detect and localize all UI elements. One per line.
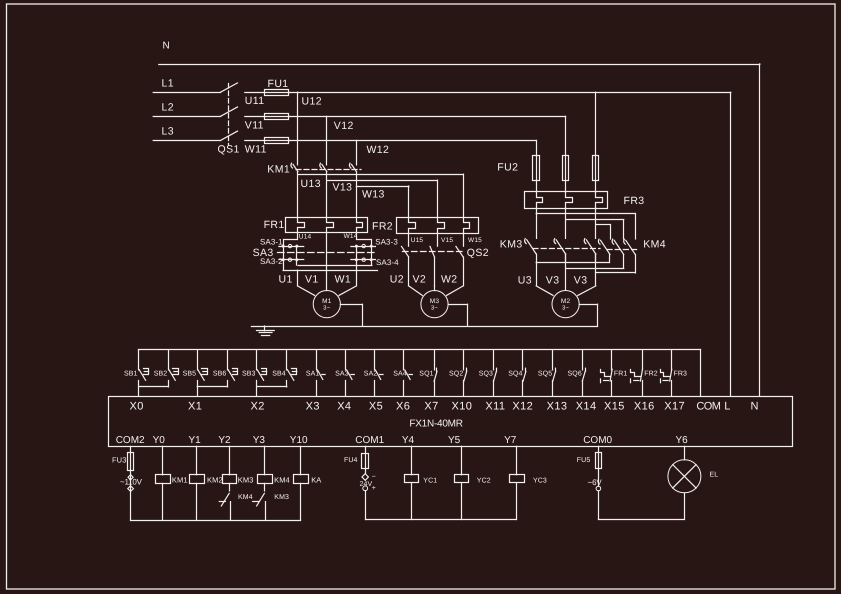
relay coils KM1 KM2 — [156, 446, 223, 520]
svg-text:SA3-4: SA3-4 — [376, 258, 399, 267]
motor M2 with leads U3 V3 W3 — [536, 263, 597, 327]
svg-text:FU3: FU3 — [112, 455, 126, 464]
svg-text:COM: COM — [696, 400, 720, 412]
svg-text:SB6: SB6 — [213, 371, 227, 378]
input contact SA1 — [306, 350, 325, 397]
svg-text:COM2: COM2 — [116, 435, 145, 446]
svg-text:V15: V15 — [441, 237, 453, 244]
svg-text:Y6: Y6 — [676, 435, 689, 446]
wires U13/V13/W13 down to FR1 — [298, 172, 357, 218]
svg-text:FU2: FU2 — [497, 161, 518, 173]
svg-text:Y2: Y2 — [218, 435, 231, 446]
svg-text:YC1: YC1 — [423, 477, 437, 484]
svg-text:FU4: FU4 — [344, 457, 358, 464]
svg-text:X11: X11 — [485, 400, 505, 412]
wires U3/V3/W3 merge of KM3-KM4 outputs — [518, 254, 636, 287]
svg-text:YC2: YC2 — [477, 477, 491, 484]
svg-text:3~: 3~ — [323, 305, 331, 312]
svg-text:FX1N-40MR: FX1N-40MR — [409, 418, 462, 429]
wire input common bus — [139, 349, 701, 351]
svg-text:Y7: Y7 — [504, 435, 517, 446]
svg-text:X6: X6 — [396, 400, 410, 412]
svg-text:W13: W13 — [362, 188, 385, 200]
switch QS1 pole 2 blade — [221, 107, 238, 116]
svg-text:SQ5: SQ5 — [538, 371, 552, 378]
svg-text:YC3: YC3 — [533, 477, 547, 484]
svg-text:SA3-1: SA3-1 — [260, 237, 283, 246]
wire U11 — [245, 93, 290, 108]
svg-text:M2: M2 — [561, 298, 571, 305]
svg-text:X1: X1 — [188, 400, 202, 412]
svg-text:KM4: KM4 — [238, 494, 253, 501]
svg-text:SQ4: SQ4 — [508, 371, 522, 378]
svg-text:3~: 3~ — [431, 305, 439, 312]
svg-text:SA3-2: SA3-2 — [260, 257, 283, 266]
svg-text:X0: X0 — [130, 400, 144, 412]
svg-text:W1: W1 — [335, 273, 352, 285]
thermal relay FR3 heaters — [525, 192, 645, 209]
svg-text:X10: X10 — [452, 400, 473, 412]
svg-text:V13: V13 — [333, 182, 353, 194]
input contact SQ1 — [419, 350, 437, 397]
PLC FX1N-40MR — [109, 397, 793, 447]
svg-text:U1: U1 — [279, 273, 293, 285]
fuse FU5 + 6V source — [577, 446, 603, 519]
svg-text:KM3: KM3 — [274, 494, 289, 501]
svg-text:FU1: FU1 — [268, 78, 289, 90]
switch QS1 pole 3 blade — [221, 131, 238, 140]
svg-text:X2: X2 — [251, 400, 265, 412]
input contact FR3 — [661, 350, 688, 397]
input contact SQ6 — [568, 350, 586, 397]
input contact SB3 — [242, 350, 287, 397]
svg-text:KM3: KM3 — [500, 239, 523, 251]
switch QS1 pole 1 blade — [221, 83, 238, 92]
svg-text:SA3: SA3 — [335, 371, 349, 378]
svg-text:FR1: FR1 — [614, 371, 628, 378]
input contact FR1 — [601, 350, 628, 397]
input contact SB1 — [124, 350, 168, 397]
wire 24V return bus — [366, 519, 517, 521]
wire bus to PLC COM — [700, 350, 702, 397]
svg-text:SB1: SB1 — [124, 371, 138, 378]
wire 110V return bus — [131, 520, 301, 522]
input contact SB5 — [183, 350, 228, 397]
fuse FU1 element 2 — [265, 114, 289, 120]
input contact FR2 — [631, 350, 658, 397]
svg-text:U11: U11 — [245, 95, 265, 107]
wire L1 incoming — [153, 77, 220, 92]
svg-text:FR2: FR2 — [644, 371, 658, 378]
svg-text:Y1: Y1 — [189, 435, 202, 446]
svg-text:KM4: KM4 — [643, 239, 666, 251]
input contact SQ2 — [449, 350, 467, 397]
net N (neutral bus) — [159, 41, 760, 397]
svg-text:X15: X15 — [604, 400, 625, 412]
svg-text:SA1: SA1 — [306, 371, 320, 378]
svg-text:QS2: QS2 — [467, 247, 489, 259]
wire V12 — [289, 117, 565, 132]
svg-text:Y5: Y5 — [448, 435, 461, 446]
svg-text:SB5: SB5 — [183, 371, 197, 378]
svg-text:EL: EL — [710, 471, 719, 478]
svg-text:U14: U14 — [299, 234, 312, 241]
svg-text:24V: 24V — [360, 481, 373, 488]
wires U13/V13/W13 branches to FR2 — [298, 174, 464, 217]
svg-text:X4: X4 — [337, 400, 351, 412]
svg-text:FR3: FR3 — [674, 371, 688, 378]
svg-text:FU5: FU5 — [577, 457, 591, 464]
svg-text:~6V: ~6V — [588, 478, 603, 487]
contactor KM1 main contacts — [267, 163, 361, 175]
input contact SA2 — [364, 350, 383, 397]
svg-text:SB3: SB3 — [242, 371, 256, 378]
svg-text:W15: W15 — [468, 237, 482, 244]
motor M1 with leads U1 V1 W1 — [279, 233, 363, 326]
valve coils YC1 YC2 YC3 — [405, 446, 547, 519]
svg-text:V12: V12 — [334, 120, 354, 132]
svg-text:U2: U2 — [390, 273, 404, 285]
input contact SA4 — [393, 350, 412, 397]
thermal relay FR1 heaters — [264, 218, 368, 233]
wire N feed to PLC — [759, 63, 761, 65]
svg-text:3~: 3~ — [562, 305, 570, 312]
svg-text:X12: X12 — [512, 400, 533, 412]
svg-text:SA4: SA4 — [393, 371, 407, 378]
svg-text:SQ3: SQ3 — [479, 371, 493, 378]
wire U12 — [289, 93, 731, 108]
svg-text:KM2: KM2 — [207, 476, 223, 485]
svg-text:X3: X3 — [306, 400, 320, 412]
svg-text:SA2: SA2 — [364, 371, 378, 378]
svg-text:U3: U3 — [518, 275, 532, 287]
contactor KM4 main contacts — [598, 239, 666, 255]
svg-text:KM4: KM4 — [274, 476, 290, 485]
svg-text:L: L — [724, 400, 731, 412]
fuse FU3 + 110V source — [112, 446, 143, 520]
wire L feed to PLC — [730, 92, 732, 396]
svg-text:SQ1: SQ1 — [419, 371, 433, 378]
wires to FU2 — [537, 92, 596, 155]
fuse FU1 element 3 — [265, 138, 289, 144]
wires U12/V12/W12 drops to KM1 — [298, 92, 357, 165]
svg-text:−: − — [372, 474, 377, 481]
input contact SQ3 — [479, 350, 497, 397]
svg-text:W2: W2 — [441, 273, 458, 285]
svg-text:W11: W11 — [245, 143, 267, 155]
svg-text:L3: L3 — [162, 126, 174, 138]
svg-text:L1: L1 — [162, 77, 174, 89]
selector switch SA3 (star-delta) — [253, 233, 400, 271]
coil KM3 + interlock contact KM4 — [219, 446, 253, 520]
svg-text:SQ2: SQ2 — [449, 371, 463, 378]
svg-text:V3: V3 — [574, 275, 588, 287]
lamp EL — [668, 446, 718, 519]
svg-text:X5: X5 — [369, 400, 383, 412]
svg-text:V2: V2 — [413, 273, 427, 285]
svg-text:U12: U12 — [302, 96, 322, 108]
svg-text:X16: X16 — [634, 400, 655, 412]
svg-text:V1: V1 — [305, 273, 319, 285]
motor M3 with leads U2 V2 W2 — [390, 273, 468, 326]
svg-text:L2: L2 — [162, 102, 174, 114]
svg-text:SB4: SB4 — [272, 371, 286, 378]
coil KM4 + interlock contact KM3 — [253, 446, 290, 520]
svg-text:X17: X17 — [664, 400, 685, 412]
contactor KM3 main contacts — [500, 239, 600, 263]
input contact SB6 — [213, 350, 238, 387]
switch QS2 — [402, 233, 490, 286]
fuse FU4 + 24V source — [344, 446, 376, 519]
svg-text:KM1: KM1 — [172, 476, 188, 485]
input contact SQ4 — [508, 350, 526, 397]
wire V11 — [245, 117, 290, 132]
svg-text:+: + — [372, 485, 377, 492]
svg-text:Y3: Y3 — [253, 435, 266, 446]
svg-text:KM1: KM1 — [267, 163, 290, 175]
input contact SB2 — [154, 350, 179, 387]
svg-text:COM0: COM0 — [583, 435, 612, 446]
svg-text:SB2: SB2 — [154, 371, 168, 378]
input contact SA3 — [335, 350, 354, 397]
input contact SQ5 — [538, 350, 556, 397]
ground (PE bus + earth symbol) — [251, 326, 597, 336]
fuse FU1 element 1 — [265, 90, 289, 96]
wire L2 incoming — [153, 102, 220, 117]
svg-text:COM1: COM1 — [355, 435, 384, 446]
svg-text:W12: W12 — [367, 144, 390, 156]
relay coil KA — [294, 446, 322, 520]
svg-text:X7: X7 — [424, 400, 438, 412]
svg-text:X13: X13 — [547, 400, 568, 412]
svg-text:N: N — [163, 41, 171, 52]
svg-text:U15: U15 — [411, 237, 424, 244]
wire 6V return bus — [599, 519, 685, 521]
svg-text:SQ6: SQ6 — [568, 371, 582, 378]
input contact SB4 — [272, 350, 297, 387]
wire W11 — [245, 141, 290, 156]
svg-text:M3: M3 — [430, 298, 440, 305]
svg-text:X14: X14 — [576, 400, 597, 412]
svg-text:SA3-3: SA3-3 — [375, 237, 398, 246]
svg-text:Y0: Y0 — [153, 435, 166, 446]
svg-text:Y4: Y4 — [402, 435, 415, 446]
wire W12 — [289, 141, 536, 156]
svg-text:M1: M1 — [322, 298, 332, 305]
svg-text:KM3: KM3 — [238, 476, 254, 485]
thermal relay FR2 heaters — [372, 218, 479, 234]
svg-text:FR1: FR1 — [264, 219, 285, 231]
svg-text:U13: U13 — [301, 178, 321, 190]
svg-text:FR3: FR3 — [624, 195, 645, 207]
wires FR3 to KM3 and crossover to KM4 — [536, 208, 635, 239]
svg-text:KA: KA — [311, 476, 321, 485]
switch QS1 linkage + label — [218, 84, 240, 156]
svg-text:V3: V3 — [546, 275, 560, 287]
svg-text:W14: W14 — [344, 233, 358, 240]
svg-text:N: N — [751, 400, 759, 412]
wire L3 incoming — [153, 126, 220, 141]
svg-text:FR2: FR2 — [372, 220, 393, 232]
svg-text:V11: V11 — [245, 119, 264, 131]
svg-text:Y10: Y10 — [290, 435, 308, 446]
svg-text:QS1: QS1 — [218, 144, 240, 156]
fuse FU2 (3 elements) — [497, 155, 598, 192]
svg-text:~110V: ~110V — [120, 478, 143, 487]
